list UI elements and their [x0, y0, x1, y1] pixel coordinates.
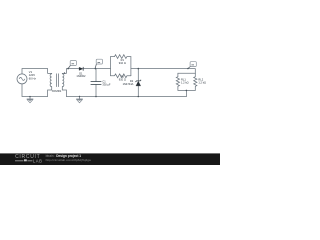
- svg-text:LAB: LAB: [33, 158, 43, 163]
- svg-text:330 µF: 330 µF: [102, 83, 111, 87]
- svg-text:910 Ω: 910 Ω: [119, 77, 126, 81]
- svg-text:60 Hz: 60 Hz: [29, 76, 37, 80]
- svg-text:XFMR1: XFMR1: [52, 89, 62, 93]
- svg-text:1N4744A: 1N4744A: [123, 82, 134, 86]
- svg-text:1N4002: 1N4002: [76, 74, 86, 78]
- svg-text:http://circuitlab.com/c8p6dj7k: http://circuitlab.com/c8p6dj7kj4ga: [46, 158, 91, 162]
- svg-text:1.2 kΩ: 1.2 kΩ: [198, 81, 206, 85]
- svg-text:1.2 kΩ: 1.2 kΩ: [181, 81, 189, 85]
- svg-text:910 Ω: 910 Ω: [119, 61, 126, 65]
